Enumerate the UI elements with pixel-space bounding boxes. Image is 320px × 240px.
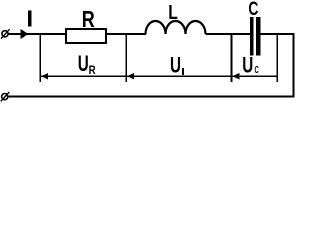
- svg-text:R: R: [82, 6, 95, 32]
- svg-text:C: C: [255, 64, 260, 76]
- svg-text:U: U: [78, 51, 89, 76]
- svg-text:U: U: [242, 53, 253, 78]
- svg-text:L: L: [168, 2, 178, 24]
- svg-text:C: C: [248, 0, 258, 20]
- svg-text:U: U: [170, 53, 181, 78]
- svg-text:R: R: [89, 63, 96, 77]
